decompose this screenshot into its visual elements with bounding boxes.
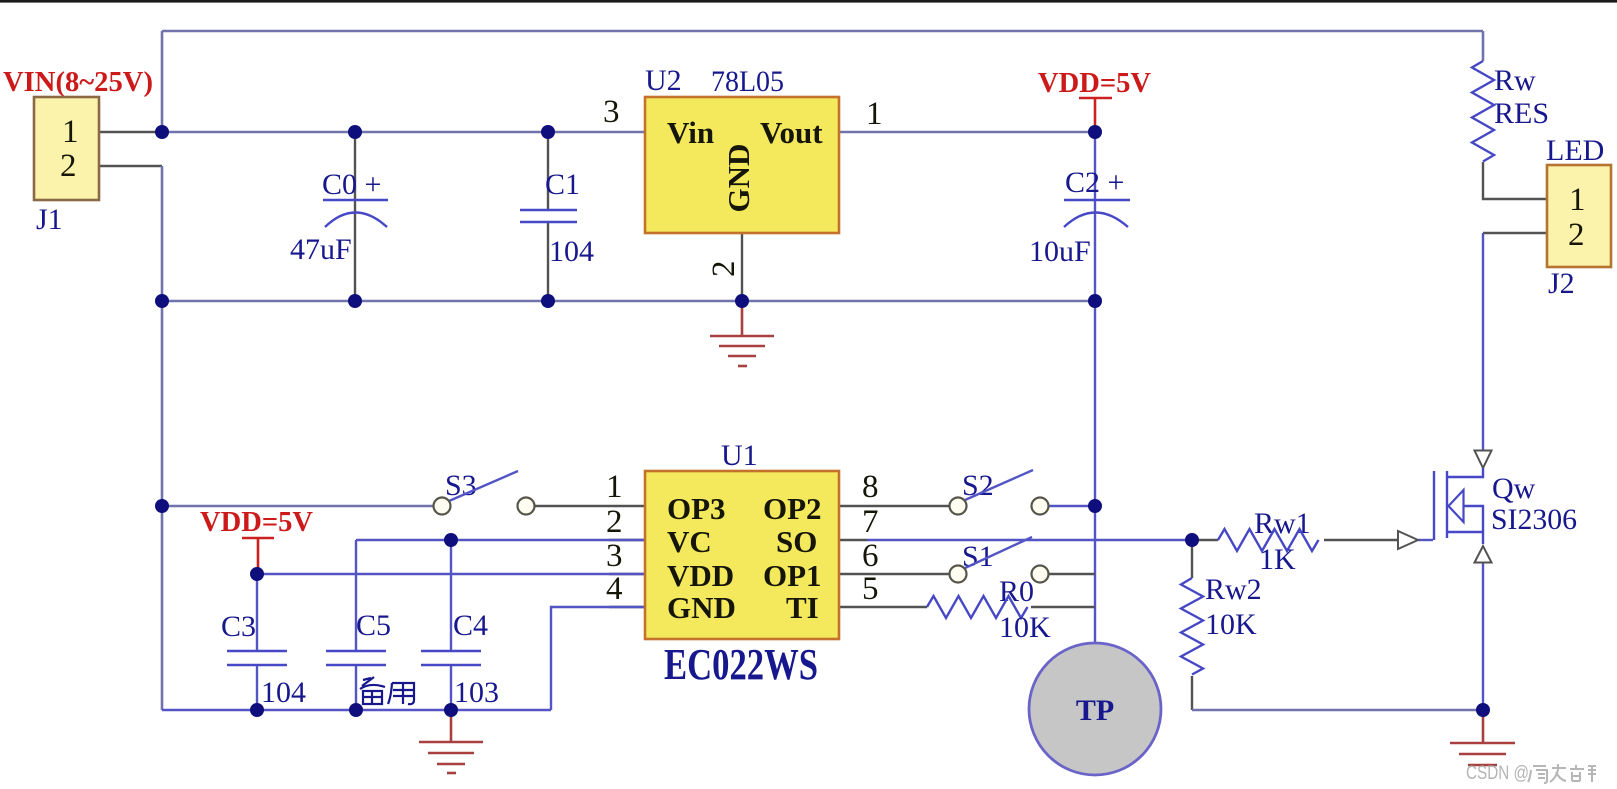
pin number 7 (U1 SO): [862, 504, 879, 540]
wire S1 output to vertical: [1049, 573, 1095, 575]
svg-text:C3: C3: [221, 610, 256, 643]
wire U1 pin8 lead to S2: [839, 505, 949, 507]
pin number 8 (U1 OP2): [862, 469, 879, 505]
svg-text:EC022WS: EC022WS: [664, 640, 818, 689]
wire U1 pin2 stub: [609, 539, 645, 541]
wire Rw top lead: [1482, 31, 1485, 61]
wire U1 VDD line to C3: [257, 573, 645, 575]
capacitor C4: [421, 609, 499, 709]
drain arrow into Qw: [1475, 451, 1492, 469]
resistor Rw1: [1218, 507, 1319, 576]
switch S3: [434, 469, 535, 515]
wire C5 stem upper: [355, 540, 357, 651]
svg-text:47uF: 47uF: [290, 233, 352, 266]
svg-text:10K: 10K: [1205, 608, 1257, 641]
node C4 bottom junction: [444, 703, 458, 717]
wire U2 GND pin lead: [741, 233, 743, 301]
svg-text:1: 1: [866, 96, 883, 132]
svg-text:S2: S2: [962, 469, 994, 502]
wire Qw source to bottom junction: [1482, 561, 1484, 710]
pin number 4 (U1 GND): [606, 571, 623, 607]
wire J1 pin1 lead: [99, 131, 162, 133]
svg-text:104: 104: [261, 676, 306, 709]
node S3 input junction: [155, 499, 169, 513]
svg-text:GND: GND: [667, 590, 736, 625]
connector J2 LED: [1546, 134, 1611, 300]
wire U1 pin6 lead to S1: [839, 573, 949, 575]
capacitor C3: [221, 610, 306, 709]
svg-text:78L05: 78L05: [711, 65, 784, 98]
node VC at C4 junction: [444, 533, 458, 547]
wire U1 TI lead to R0: [839, 606, 927, 608]
resistor R0: [927, 575, 1051, 644]
svg-text:OP2: OP2: [763, 491, 822, 526]
wire U1 pin3 stub: [609, 573, 645, 575]
capacitor C0: [290, 168, 388, 266]
node C1 top junction: [541, 125, 555, 139]
wire bottom bus right: [1192, 709, 1483, 712]
ground symbol bottom right: [1450, 710, 1515, 765]
switch S1: [950, 537, 1049, 583]
node SO/Rw1/Rw2 junction: [1185, 533, 1199, 547]
capacitor C2: [1029, 166, 1130, 268]
pin number 3 (U2 Vin): [603, 94, 620, 130]
svg-text:5: 5: [862, 571, 879, 607]
node S2 output junction: [1088, 499, 1102, 513]
wire gate arrow to Qw gate: [1418, 539, 1433, 541]
net label VIN(8~25V): [3, 67, 153, 98]
svg-text:1K: 1K: [1259, 543, 1296, 576]
wire U1 GND pin route to bottom bus: [551, 607, 645, 710]
pin number 6 (U1 OP1): [862, 538, 879, 574]
svg-text:OP1: OP1: [763, 558, 822, 593]
node C3 bottom junction: [250, 703, 264, 717]
wire S3 input from GND vertical: [162, 505, 433, 508]
wire U1 pin4 stub: [609, 606, 645, 608]
svg-text:6: 6: [862, 538, 879, 574]
wire U1 SO lead: [839, 539, 867, 541]
pin number 2 (U2 GND): [706, 261, 742, 278]
watermark CSDN: [1466, 763, 1596, 784]
svg-text:U2: U2: [645, 64, 682, 97]
test point TP: [1029, 643, 1161, 775]
pin number 5 (U1 TI): [862, 571, 879, 607]
pin number 2 (U1 VC): [606, 504, 623, 540]
resistor Rw: [1472, 61, 1549, 162]
source arrow into Qw: [1475, 546, 1492, 563]
wire S2 output to VDD vertical: [1049, 505, 1095, 507]
wire C3 stem lower: [256, 665, 258, 710]
svg-text:2: 2: [1568, 217, 1585, 253]
svg-text:CSDN @: CSDN @: [1466, 763, 1529, 784]
svg-text:TP: TP: [1076, 694, 1114, 727]
svg-text:3: 3: [603, 94, 620, 130]
svg-text:VIN(8~25V): VIN(8~25V): [3, 67, 153, 98]
svg-text:VDD=5V: VDD=5V: [1038, 68, 1151, 99]
pin number 1 (U1 OP3): [606, 469, 623, 505]
node C5 bottom junction: [349, 703, 363, 717]
wire ground bus upper: [162, 300, 1095, 303]
svg-text:VC: VC: [667, 524, 712, 559]
capacitor C1: [520, 168, 594, 268]
svg-text:1: 1: [1569, 182, 1586, 218]
svg-text:C5: C5: [356, 609, 391, 642]
wire Rw2 bottom lead: [1191, 676, 1193, 710]
wire VIN vertical drop to node A: [161, 31, 164, 132]
wire GND left vertical: [161, 166, 164, 710]
connector J1: [34, 97, 99, 236]
wire VDD vertical to S2/TP: [1094, 301, 1096, 643]
svg-text:1: 1: [606, 469, 623, 505]
node C2 bottom junction: [1088, 294, 1102, 308]
wire VIN rail to U2 Vin: [162, 131, 645, 134]
ground symbol under U2: [710, 301, 774, 366]
transistor Q1 Qw SI2306 mosfet body: [1434, 468, 1577, 544]
node source/ground junction: [1476, 703, 1490, 717]
wire top bus VIN to Rw: [162, 30, 1483, 33]
ground symbol under C4: [419, 710, 483, 773]
wire J2 pin2 lead: [1483, 232, 1547, 234]
gate arrow into Qw: [1398, 531, 1418, 549]
wire bottom bus left: [162, 709, 551, 711]
wire Rw2 top lead: [1191, 540, 1193, 578]
svg-text:104: 104: [549, 235, 594, 268]
svg-text:2: 2: [60, 148, 77, 184]
regulator U2 78L05: [645, 64, 839, 233]
wire C1 stem upper: [547, 132, 549, 209]
svg-text:VDD: VDD: [667, 558, 734, 593]
svg-text:GND: GND: [721, 144, 756, 213]
svg-text:C0 +: C0 +: [322, 168, 381, 201]
svg-text:Rw2: Rw2: [1205, 573, 1262, 606]
wire SO net to Rw1 node: [867, 539, 1192, 541]
node C0 bottom junction: [348, 294, 362, 308]
svg-text:SO: SO: [776, 524, 817, 559]
wire C3 stem upper: [256, 574, 258, 651]
svg-text:U1: U1: [721, 439, 758, 472]
node VIN junction at J1 pin1: [155, 125, 169, 139]
svg-text:C2 +: C2 +: [1065, 166, 1124, 199]
svg-text:Vout: Vout: [760, 115, 823, 150]
node gnd bus at left vertical: [155, 294, 169, 308]
svg-text:C4: C4: [453, 609, 488, 642]
power symbol VDD=5V top: [1038, 68, 1151, 132]
power symbol VDD=5V lower: [200, 507, 313, 574]
wire S3 output to U1 pin1: [535, 505, 645, 507]
wire C0 stem: [354, 132, 356, 301]
wire Rw1 input lead: [1192, 539, 1218, 541]
node C0 top junction: [348, 125, 362, 139]
wire C5 stem lower: [355, 665, 357, 710]
wire Rw bottom lead to J2 pin1: [1483, 162, 1547, 199]
svg-text:3: 3: [606, 538, 623, 574]
svg-text:OP3: OP3: [667, 491, 726, 526]
wire U2 Vout to VDD node: [839, 131, 1095, 134]
pin number 1 (U2 Vout): [866, 96, 883, 132]
node VDD at C3 junction: [250, 567, 264, 581]
switch S2: [950, 469, 1049, 515]
svg-text:2: 2: [706, 261, 742, 278]
svg-text:Rw: Rw: [1494, 64, 1536, 97]
svg-text:SI2306: SI2306: [1491, 503, 1577, 536]
svg-text:10uF: 10uF: [1029, 235, 1091, 268]
svg-text:RES: RES: [1494, 97, 1549, 130]
svg-text:4: 4: [606, 571, 623, 607]
wire C2 stem: [1094, 132, 1096, 301]
value label 备用 (C5 spare): [360, 677, 414, 704]
svg-text:TI: TI: [786, 590, 819, 625]
svg-text:2: 2: [606, 504, 623, 540]
wire J1 pin2 lead: [99, 165, 162, 167]
svg-text:7: 7: [862, 504, 879, 540]
wire C4 stem upper: [450, 540, 452, 651]
node C1 bottom junction: [541, 294, 555, 308]
resistor Rw2: [1181, 573, 1262, 675]
svg-text:Vin: Vin: [667, 115, 714, 150]
wire Rw1 output lead to gate arrow: [1324, 539, 1398, 541]
svg-text:1: 1: [62, 114, 79, 150]
svg-text:J2: J2: [1548, 267, 1575, 300]
node U2 GND junction: [735, 294, 749, 308]
svg-text:C1: C1: [545, 168, 580, 201]
IC U1 EC022WS: [645, 439, 839, 689]
wire U1 VC line to C5: [356, 539, 645, 541]
svg-text:VDD=5V: VDD=5V: [200, 507, 313, 538]
svg-text:J1: J1: [36, 203, 63, 236]
svg-text:103: 103: [454, 676, 499, 709]
top border bar: [0, 0, 1617, 3]
node VDD junction at C2 top: [1088, 125, 1102, 139]
wire J2 pin2 vertical to Qw drain: [1482, 233, 1484, 451]
pin number 3 (U1 VDD): [606, 538, 623, 574]
svg-text:Qw: Qw: [1492, 472, 1536, 505]
capacitor C5: [326, 609, 391, 665]
wire C1 stem lower: [547, 223, 549, 301]
wire R0 output to TP drop: [1031, 606, 1095, 608]
svg-text:10K: 10K: [999, 611, 1051, 644]
svg-text:LED: LED: [1546, 134, 1604, 167]
wire C4 stem lower: [450, 665, 452, 710]
svg-text:8: 8: [862, 469, 879, 505]
